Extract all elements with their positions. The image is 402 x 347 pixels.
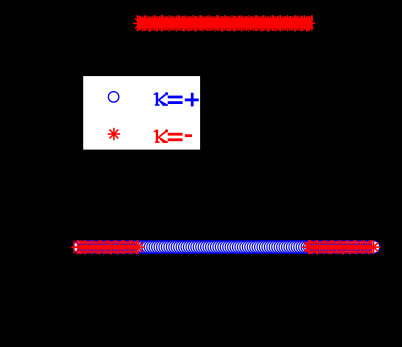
legend marker: red asterisk (108, 128, 120, 140)
node: leftmost clipped asterisk vertical arm (73, 241, 74, 254)
legend text kappa=- (red) (153, 129, 192, 143)
legend marker: blue circle (108, 92, 119, 103)
wire: overlapping horizontal asterisk arms at left plot edge (71, 246, 78, 248)
series kappa=plus : blue open circles row (white filled) (73, 241, 379, 253)
legend text kappa=+ (blue) (153, 92, 199, 106)
legend box (83, 76, 200, 150)
series kappa=minus : bottom-left red asterisk segment (clipped at plot edge) (74, 240, 145, 254)
series kappa=minus : bottom-right red asterisk segment (302, 240, 316, 254)
series kappa=minus : top band of red asterisk markers (133, 15, 315, 31)
